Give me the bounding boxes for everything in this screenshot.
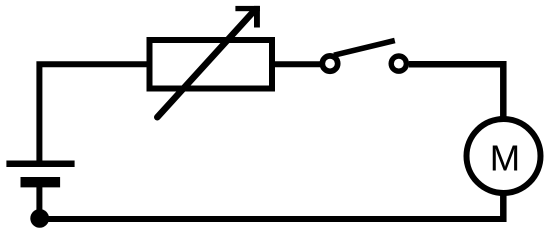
- switch right terminal circle: [391, 56, 406, 71]
- wire: bottom horizontal: [40, 216, 504, 222]
- rheostat arrowhead vertical barb: [254, 6, 260, 28]
- wire: vertical above motor + top-right horizontal to switch: [409, 64, 504, 118]
- motor circle: [467, 119, 541, 193]
- rheostat arrow shaft: [157, 11, 254, 117]
- wire: left vertical + top-left horizontal to rheostat: [39, 64, 146, 162]
- node junction dot: [30, 209, 49, 228]
- wire: bottom-right vertical below motor: [500, 194, 507, 222]
- rheostat body rectangle: [150, 40, 273, 89]
- battery short plate (-): [21, 177, 61, 187]
- wire: rheostat to switch: [275, 61, 320, 67]
- rheostat arrowhead horizontal barb: [235, 6, 260, 11]
- switch left terminal circle: [322, 56, 337, 71]
- wire: battery negative stub down to junction: [36, 184, 42, 219]
- switch lever (open): [334, 41, 395, 56]
- svg-text:M: M: [490, 137, 520, 178]
- battery long plate (+): [6, 160, 74, 167]
